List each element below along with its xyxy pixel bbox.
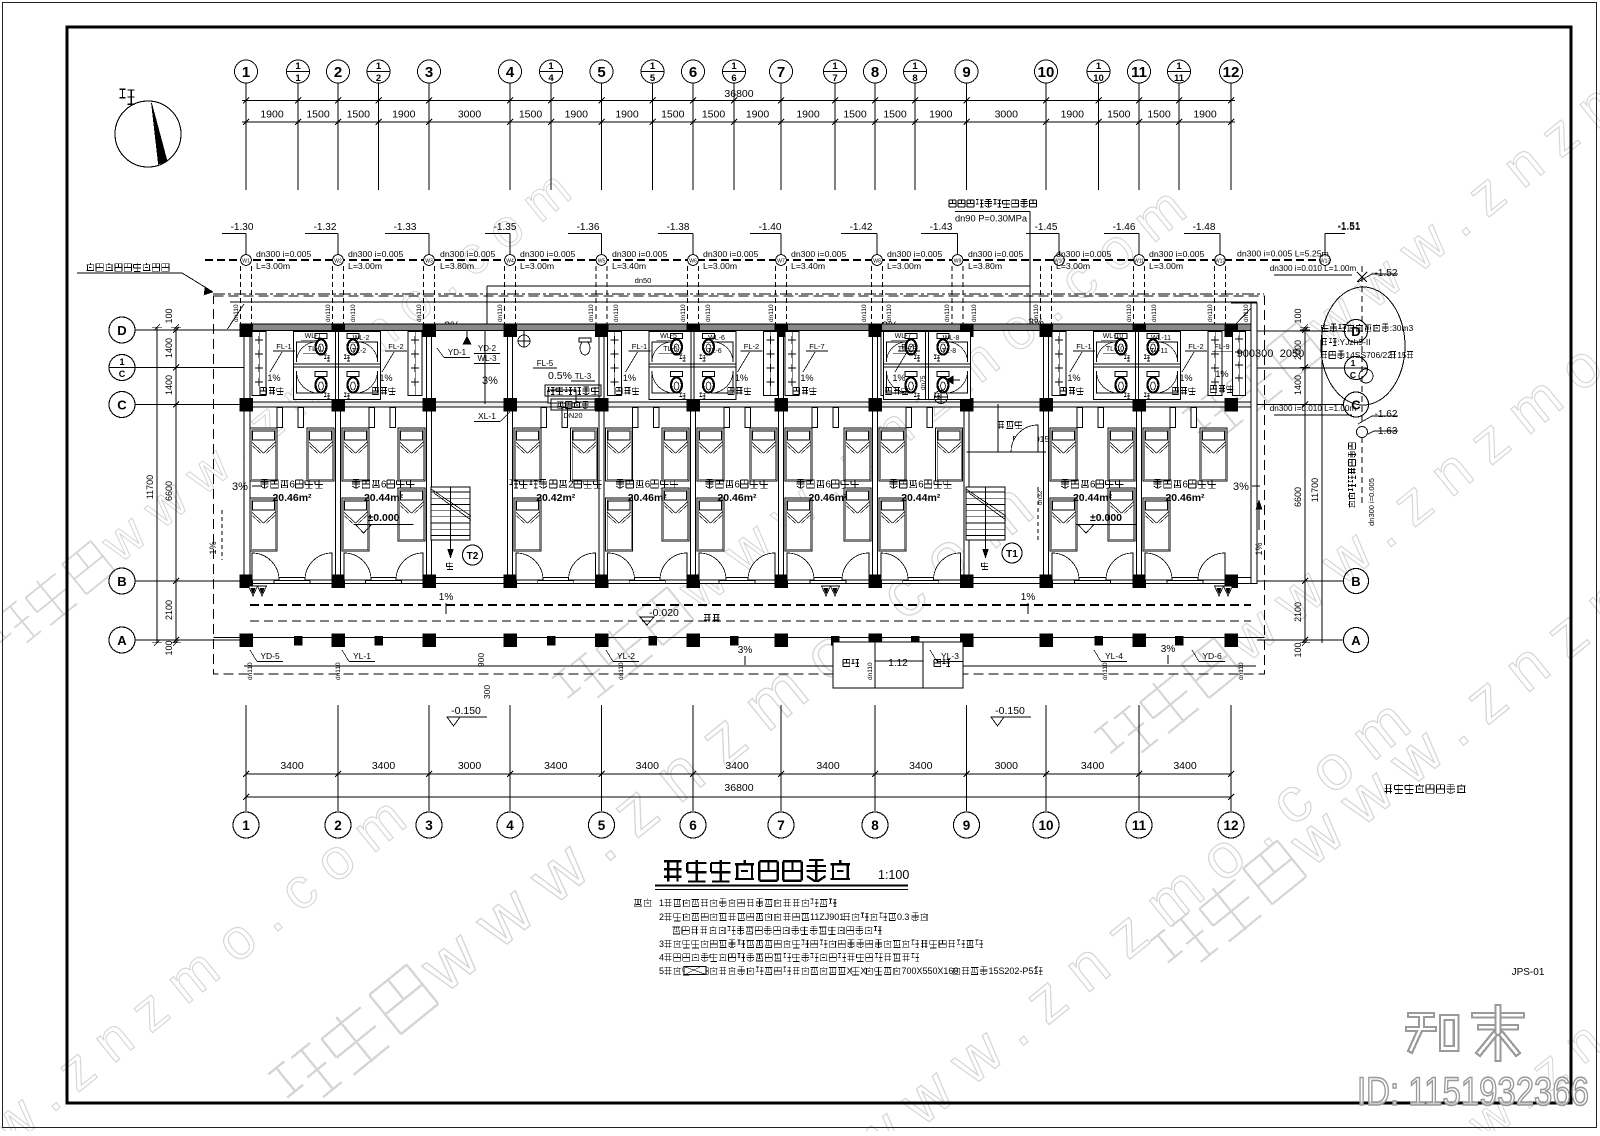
svg-text:1: 1 [376, 61, 382, 72]
svg-text:W6: W6 [689, 259, 697, 265]
svg-text:JPS-01: JPS-01 [1512, 967, 1545, 978]
svg-text:6: 6 [918, 479, 923, 490]
svg-text:dn300 i=0.005: dn300 i=0.005 [256, 249, 311, 259]
svg-text:TL-5: TL-5 [663, 346, 678, 353]
svg-text:8: 8 [912, 73, 917, 84]
svg-text:1900: 1900 [260, 109, 284, 121]
svg-text:TL-11: TL-11 [1150, 348, 1168, 355]
svg-text:3400: 3400 [544, 760, 568, 772]
svg-text:6: 6 [645, 479, 650, 490]
svg-text:11: 11 [1132, 818, 1147, 833]
svg-text:1: 1 [295, 61, 301, 72]
svg-text:-1.46: -1.46 [1113, 222, 1136, 233]
svg-text:20.46m²: 20.46m² [808, 492, 848, 504]
svg-text:dn75: dn75 [920, 375, 927, 390]
svg-text:dn300 i=0.005: dn300 i=0.005 [612, 249, 667, 259]
svg-text:6: 6 [1183, 479, 1188, 490]
svg-text:5: 5 [598, 818, 606, 833]
svg-text:3000: 3000 [995, 109, 1019, 121]
svg-text:L=3.00m: L=3.00m [1149, 261, 1183, 271]
svg-text:FL-1: FL-1 [1076, 342, 1091, 351]
svg-text:6: 6 [731, 73, 736, 84]
svg-text:1900: 1900 [796, 109, 820, 121]
svg-text:FL-7: FL-7 [809, 342, 824, 351]
svg-text:36800: 36800 [724, 88, 753, 100]
svg-text:dn300 i=0.010 L=1.00m: dn300 i=0.010 L=1.00m [1270, 264, 1357, 273]
svg-text:dn90 P=0.30MPa: dn90 P=0.30MPa [955, 214, 1028, 224]
svg-text:3: 3 [425, 64, 433, 81]
svg-text:900300: 900300 [1237, 348, 1274, 360]
svg-text:7: 7 [832, 73, 837, 84]
svg-text:900: 900 [476, 653, 486, 667]
svg-text:L=3.00m: L=3.00m [256, 261, 290, 271]
svg-text:6: 6 [290, 479, 295, 490]
svg-text:dn110: dn110 [1243, 304, 1250, 322]
svg-text:-0.150: -0.150 [451, 705, 481, 717]
svg-text:TL-10: TL-10 [1106, 346, 1124, 353]
svg-text:2: 2 [334, 64, 342, 81]
svg-text:2050: 2050 [1280, 348, 1304, 360]
svg-text:W4: W4 [506, 259, 514, 265]
svg-text:-1.43: -1.43 [930, 222, 953, 233]
svg-text:FL-8: FL-8 [901, 342, 916, 351]
svg-text:dn300 i=0.005: dn300 i=0.005 [703, 249, 758, 259]
svg-text:L=3.00m: L=3.00m [348, 261, 382, 271]
svg-text:X: X [860, 966, 866, 976]
svg-text:TL-3: TL-3 [575, 372, 592, 381]
svg-text:20.44m²: 20.44m² [364, 492, 404, 504]
svg-text:1: 1 [659, 898, 664, 908]
svg-text:1: 1 [1096, 61, 1102, 72]
svg-text:1%: 1% [208, 541, 218, 554]
svg-text:WL-5: WL-5 [660, 333, 677, 340]
svg-text:1500: 1500 [306, 109, 330, 121]
svg-text:3400: 3400 [280, 760, 304, 772]
svg-text:3000: 3000 [995, 760, 1019, 772]
svg-text:100: 100 [164, 308, 174, 323]
svg-text:6: 6 [1090, 479, 1095, 490]
svg-text:TL-2: TL-2 [352, 348, 367, 355]
svg-text:-1.33: -1.33 [394, 222, 417, 233]
svg-text:1: 1 [832, 61, 838, 72]
svg-text:T1: T1 [1006, 549, 1018, 560]
svg-text:dn300 i=0.005 L=5.25m: dn300 i=0.005 L=5.25m [1237, 249, 1329, 259]
svg-text:L=3.00m: L=3.00m [520, 261, 554, 271]
svg-text:FL-1: FL-1 [632, 342, 647, 351]
svg-text:0.3: 0.3 [897, 912, 909, 922]
svg-text:1%: 1% [1067, 373, 1080, 383]
svg-text:C: C [117, 398, 127, 413]
svg-text:±0.000: ±0.000 [1090, 512, 1122, 524]
svg-text:3: 3 [425, 818, 433, 833]
svg-text:-1.48: -1.48 [1193, 222, 1216, 233]
svg-text:YL-1: YL-1 [353, 651, 371, 661]
svg-text:L=3.00m: L=3.00m [1056, 261, 1090, 271]
svg-text:1500: 1500 [1107, 109, 1131, 121]
svg-text:FL-2: FL-2 [744, 342, 759, 351]
svg-text:dn110: dn110 [325, 304, 332, 322]
svg-text:-1.42: -1.42 [850, 222, 873, 233]
svg-text:1%: 1% [1021, 592, 1036, 603]
svg-text:WL-3: WL-3 [477, 354, 497, 363]
svg-text:dn110: dn110 [1126, 304, 1133, 322]
svg-text:3: 3 [659, 939, 664, 949]
svg-text:1500: 1500 [702, 109, 726, 121]
svg-text:dn110: dn110 [1102, 662, 1109, 680]
svg-text:YL-3: YL-3 [941, 651, 959, 661]
svg-text:dn110: dn110 [497, 304, 504, 322]
svg-text:-1.51: -1.51 [1338, 221, 1361, 232]
svg-text:dn110: dn110 [350, 304, 357, 322]
svg-text:20.44m²: 20.44m² [1073, 492, 1113, 504]
svg-text:3000: 3000 [458, 760, 482, 772]
svg-text:1: 1 [912, 61, 918, 72]
svg-text:2: 2 [334, 818, 342, 833]
svg-text:-1.40: -1.40 [759, 222, 782, 233]
svg-text:1%: 1% [800, 373, 813, 383]
svg-text:1900: 1900 [1193, 109, 1217, 121]
svg-text:A: A [117, 633, 127, 648]
svg-text:5: 5 [650, 73, 656, 84]
svg-text:-1.62: -1.62 [1375, 409, 1398, 420]
svg-text:3400: 3400 [816, 760, 840, 772]
svg-text:3400: 3400 [372, 760, 396, 772]
svg-text:3%: 3% [738, 645, 753, 656]
svg-text:W3: W3 [425, 259, 433, 265]
svg-text:-1.30: -1.30 [231, 222, 254, 233]
svg-text:dn110: dn110 [1151, 304, 1158, 322]
svg-text:C: C [119, 369, 126, 379]
svg-text:5: 5 [597, 64, 605, 81]
svg-text:9: 9 [963, 818, 971, 833]
svg-text:20.46m²: 20.46m² [628, 492, 668, 504]
svg-text:1500: 1500 [347, 109, 371, 121]
svg-text:1900: 1900 [929, 109, 953, 121]
svg-text:12: 12 [1223, 64, 1240, 81]
svg-text:-1.36: -1.36 [577, 222, 600, 233]
svg-text:3400: 3400 [636, 760, 660, 772]
svg-text:WL-11: WL-11 [1151, 335, 1171, 342]
svg-text:TL-6: TL-6 [707, 348, 722, 355]
svg-text:FL-1: FL-1 [276, 342, 291, 351]
svg-text:1: 1 [1176, 61, 1182, 72]
svg-text:3000: 3000 [458, 109, 482, 121]
svg-text:1%: 1% [892, 373, 905, 383]
svg-text:11ZJ901: 11ZJ901 [810, 912, 844, 922]
svg-text:DN20: DN20 [563, 411, 582, 420]
svg-text:W2: W2 [334, 259, 342, 265]
svg-text:4: 4 [506, 818, 514, 833]
svg-text:1500: 1500 [843, 109, 867, 121]
svg-text:1400: 1400 [1293, 375, 1303, 395]
svg-text:2: 2 [659, 912, 664, 922]
svg-text:15S202-P51: 15S202-P51 [988, 966, 1038, 976]
svg-text:dn300 i=0.005: dn300 i=0.005 [520, 249, 575, 259]
svg-text:dn300 i=0.005: dn300 i=0.005 [968, 249, 1023, 259]
svg-text:11700: 11700 [145, 475, 155, 499]
svg-text:3400: 3400 [909, 760, 933, 772]
svg-text:W5: W5 [598, 259, 606, 265]
svg-text:4: 4 [548, 73, 554, 84]
svg-text:10: 10 [1038, 64, 1055, 81]
svg-text:WL-8: WL-8 [943, 335, 960, 342]
svg-text:-1.38: -1.38 [667, 222, 690, 233]
svg-text:6: 6 [735, 479, 740, 490]
svg-text:YD-6: YD-6 [1202, 651, 1222, 661]
svg-text:WL-1: WL-1 [305, 333, 322, 340]
svg-text:-1.32: -1.32 [314, 222, 337, 233]
svg-text:dn300 i=0.010 L=1.00m: dn300 i=0.010 L=1.00m [1270, 404, 1357, 413]
svg-text:-0.150: -0.150 [995, 705, 1025, 717]
svg-text:1%: 1% [267, 373, 280, 383]
svg-text:1: 1 [242, 818, 250, 833]
svg-text:XL-1: XL-1 [478, 411, 496, 421]
svg-text:10: 10 [1093, 73, 1104, 84]
svg-text:7: 7 [777, 64, 785, 81]
svg-text:3400: 3400 [725, 760, 749, 772]
svg-text:100: 100 [1293, 642, 1303, 657]
svg-text:1%: 1% [1215, 369, 1228, 379]
svg-text:YD-1: YD-1 [448, 348, 467, 357]
svg-text:TL-1: TL-1 [308, 346, 323, 353]
svg-text:700X550X160: 700X550X160 [902, 966, 959, 976]
svg-text:-1.52: -1.52 [1375, 268, 1398, 279]
svg-text:dn110: dn110 [335, 662, 342, 680]
svg-text:5: 5 [659, 966, 664, 976]
svg-text:11: 11 [1174, 73, 1185, 84]
svg-text:W8: W8 [873, 259, 881, 265]
svg-text:WL-7: WL-7 [895, 333, 912, 340]
svg-text:1900: 1900 [565, 109, 589, 121]
svg-text:1%: 1% [735, 373, 748, 383]
svg-text:1900: 1900 [1061, 109, 1085, 121]
svg-text:1400: 1400 [164, 338, 174, 358]
svg-text:±0.000: ±0.000 [367, 512, 399, 524]
svg-text:dn300 i=0.005: dn300 i=0.005 [1367, 478, 1376, 526]
svg-text:100: 100 [164, 640, 174, 655]
svg-text:W7: W7 [777, 259, 785, 265]
svg-text:36800: 36800 [724, 782, 753, 794]
svg-text:2: 2 [376, 73, 381, 84]
svg-text:2100: 2100 [164, 600, 174, 620]
svg-text:6600: 6600 [164, 481, 174, 501]
svg-text:dn110: dn110 [861, 304, 868, 322]
svg-text:6: 6 [689, 64, 697, 81]
svg-text:1: 1 [119, 357, 124, 367]
svg-text:3400: 3400 [1173, 760, 1197, 772]
svg-text:L=3.00m: L=3.00m [703, 261, 737, 271]
svg-text:1400: 1400 [164, 375, 174, 395]
svg-text:1: 1 [295, 73, 301, 84]
svg-text:20.46m²: 20.46m² [1165, 492, 1205, 504]
svg-text:dn110: dn110 [944, 304, 951, 322]
svg-text:20.46m²: 20.46m² [717, 492, 757, 504]
svg-text:dn110: dn110 [618, 662, 625, 680]
svg-text:1%: 1% [1254, 542, 1264, 555]
svg-text:dn110: dn110 [768, 304, 775, 322]
svg-text:1:100: 1:100 [878, 868, 909, 882]
svg-text:6: 6 [826, 479, 831, 490]
svg-text:ID: 1151932366: ID: 1151932366 [1357, 1070, 1589, 1114]
svg-text:dn110: dn110 [705, 304, 712, 322]
svg-text:dn110: dn110 [588, 304, 595, 322]
svg-text:YL-2: YL-2 [617, 651, 635, 661]
svg-text:9: 9 [962, 64, 970, 81]
svg-text:dn50: dn50 [635, 276, 652, 285]
svg-text:12: 12 [1223, 818, 1238, 833]
svg-text::30m3: :30m3 [1390, 323, 1414, 333]
svg-text:L=3.80m: L=3.80m [968, 261, 1002, 271]
svg-text:1900: 1900 [615, 109, 639, 121]
svg-text:YD-5: YD-5 [260, 651, 280, 661]
svg-text:2: 2 [568, 479, 573, 490]
svg-text:B: B [117, 574, 126, 589]
svg-text:-1.63: -1.63 [1375, 426, 1398, 437]
svg-text:dn110: dn110 [233, 304, 240, 322]
svg-text:W1: W1 [242, 259, 250, 265]
svg-text:A: A [1351, 633, 1361, 648]
svg-text:20.44m²: 20.44m² [901, 492, 941, 504]
svg-text:dn300 i=0.005: dn300 i=0.005 [348, 249, 403, 259]
svg-text:T2: T2 [467, 551, 479, 562]
svg-text:1:12: 1:12 [888, 658, 908, 669]
svg-text:8: 8 [871, 64, 879, 81]
svg-text:W9: W9 [954, 259, 962, 265]
svg-text:WL-6: WL-6 [708, 335, 725, 342]
svg-text:FL-9: FL-9 [1214, 342, 1229, 351]
svg-text:6600: 6600 [1293, 487, 1303, 507]
svg-text:1%: 1% [379, 373, 392, 383]
svg-text:3%: 3% [1161, 644, 1176, 655]
svg-text:1%: 1% [1179, 373, 1192, 383]
svg-text:1: 1 [548, 61, 554, 72]
svg-text:C: C [1350, 370, 1356, 380]
svg-text:W11: W11 [1134, 259, 1144, 265]
svg-text:100: 100 [1293, 308, 1303, 323]
svg-text:10: 10 [1038, 818, 1053, 833]
svg-text:dn110: dn110 [867, 662, 874, 680]
svg-text:6: 6 [381, 479, 386, 490]
svg-text:0.5%: 0.5% [548, 370, 572, 382]
svg-text:dn110: dn110 [613, 304, 620, 322]
svg-text:2100: 2100 [1293, 602, 1303, 622]
svg-text:300: 300 [482, 685, 492, 699]
svg-text:3%: 3% [1233, 481, 1249, 493]
svg-text:15: 15 [1397, 350, 1407, 360]
svg-text:L=3.40m: L=3.40m [612, 261, 646, 271]
svg-text:-1.35: -1.35 [494, 222, 517, 233]
svg-text:dn110: dn110 [247, 662, 254, 680]
svg-text:1%: 1% [439, 592, 454, 603]
svg-text:7: 7 [777, 818, 785, 833]
svg-text:11700: 11700 [1310, 478, 1320, 502]
svg-text:1: 1 [731, 61, 737, 72]
svg-text:FL-5: FL-5 [537, 359, 554, 368]
svg-text:dn110: dn110 [680, 304, 687, 322]
svg-text:dn300 i=0.005: dn300 i=0.005 [887, 249, 942, 259]
svg-text:1500: 1500 [1147, 109, 1171, 121]
svg-text:3%: 3% [482, 375, 498, 387]
svg-text:dn110: dn110 [971, 304, 978, 322]
svg-text:FL-2: FL-2 [1188, 342, 1203, 351]
svg-text:dn300 i=0.005: dn300 i=0.005 [791, 249, 846, 259]
svg-text:L=3.40m: L=3.40m [791, 261, 825, 271]
svg-text:1900: 1900 [746, 109, 770, 121]
svg-text:4: 4 [506, 64, 515, 81]
svg-text:14SS706/22: 14SS706/22 [1345, 350, 1392, 360]
svg-text:dn300 i=0.005: dn300 i=0.005 [1056, 249, 1111, 259]
svg-text:1500: 1500 [883, 109, 907, 121]
svg-text:YL-4: YL-4 [1105, 651, 1123, 661]
svg-text:L=3.00m: L=3.00m [887, 261, 921, 271]
svg-text:1500: 1500 [661, 109, 685, 121]
svg-text:-1.45: -1.45 [1035, 222, 1058, 233]
svg-text:L=3.80m: L=3.80m [440, 261, 474, 271]
svg-text:FL-2: FL-2 [388, 342, 403, 351]
svg-text:8: 8 [871, 818, 879, 833]
svg-text:20.46m²: 20.46m² [272, 492, 312, 504]
svg-text:11: 11 [1131, 64, 1147, 81]
svg-text:1%: 1% [623, 373, 636, 383]
svg-text:20.42m²: 20.42m² [536, 492, 576, 504]
svg-text:WL-10: WL-10 [1103, 333, 1124, 340]
svg-text:3400: 3400 [1081, 760, 1105, 772]
svg-text:TL-8: TL-8 [942, 348, 957, 355]
svg-text:1: 1 [650, 61, 656, 72]
svg-text:dn110: dn110 [416, 304, 423, 322]
svg-text:dn110: dn110 [1207, 304, 1214, 322]
svg-text:D: D [117, 323, 126, 338]
svg-text:WL-2: WL-2 [353, 335, 370, 342]
svg-text:dn300 i=0.005: dn300 i=0.005 [1149, 249, 1204, 259]
svg-text:dn300 i=0.005: dn300 i=0.005 [440, 249, 495, 259]
svg-text:B: B [1351, 574, 1360, 589]
svg-text:YD-2: YD-2 [478, 344, 497, 353]
svg-text:1900: 1900 [392, 109, 416, 121]
svg-text:4: 4 [659, 953, 664, 963]
svg-text:1: 1 [242, 64, 250, 81]
svg-text:3%: 3% [232, 481, 248, 493]
svg-text::YJzh9-II: :YJzh9-II [1337, 337, 1370, 347]
svg-text:dn110: dn110 [1238, 662, 1245, 680]
svg-text:1500: 1500 [519, 109, 543, 121]
svg-text:6: 6 [689, 818, 697, 833]
svg-text:W12: W12 [1215, 259, 1226, 265]
